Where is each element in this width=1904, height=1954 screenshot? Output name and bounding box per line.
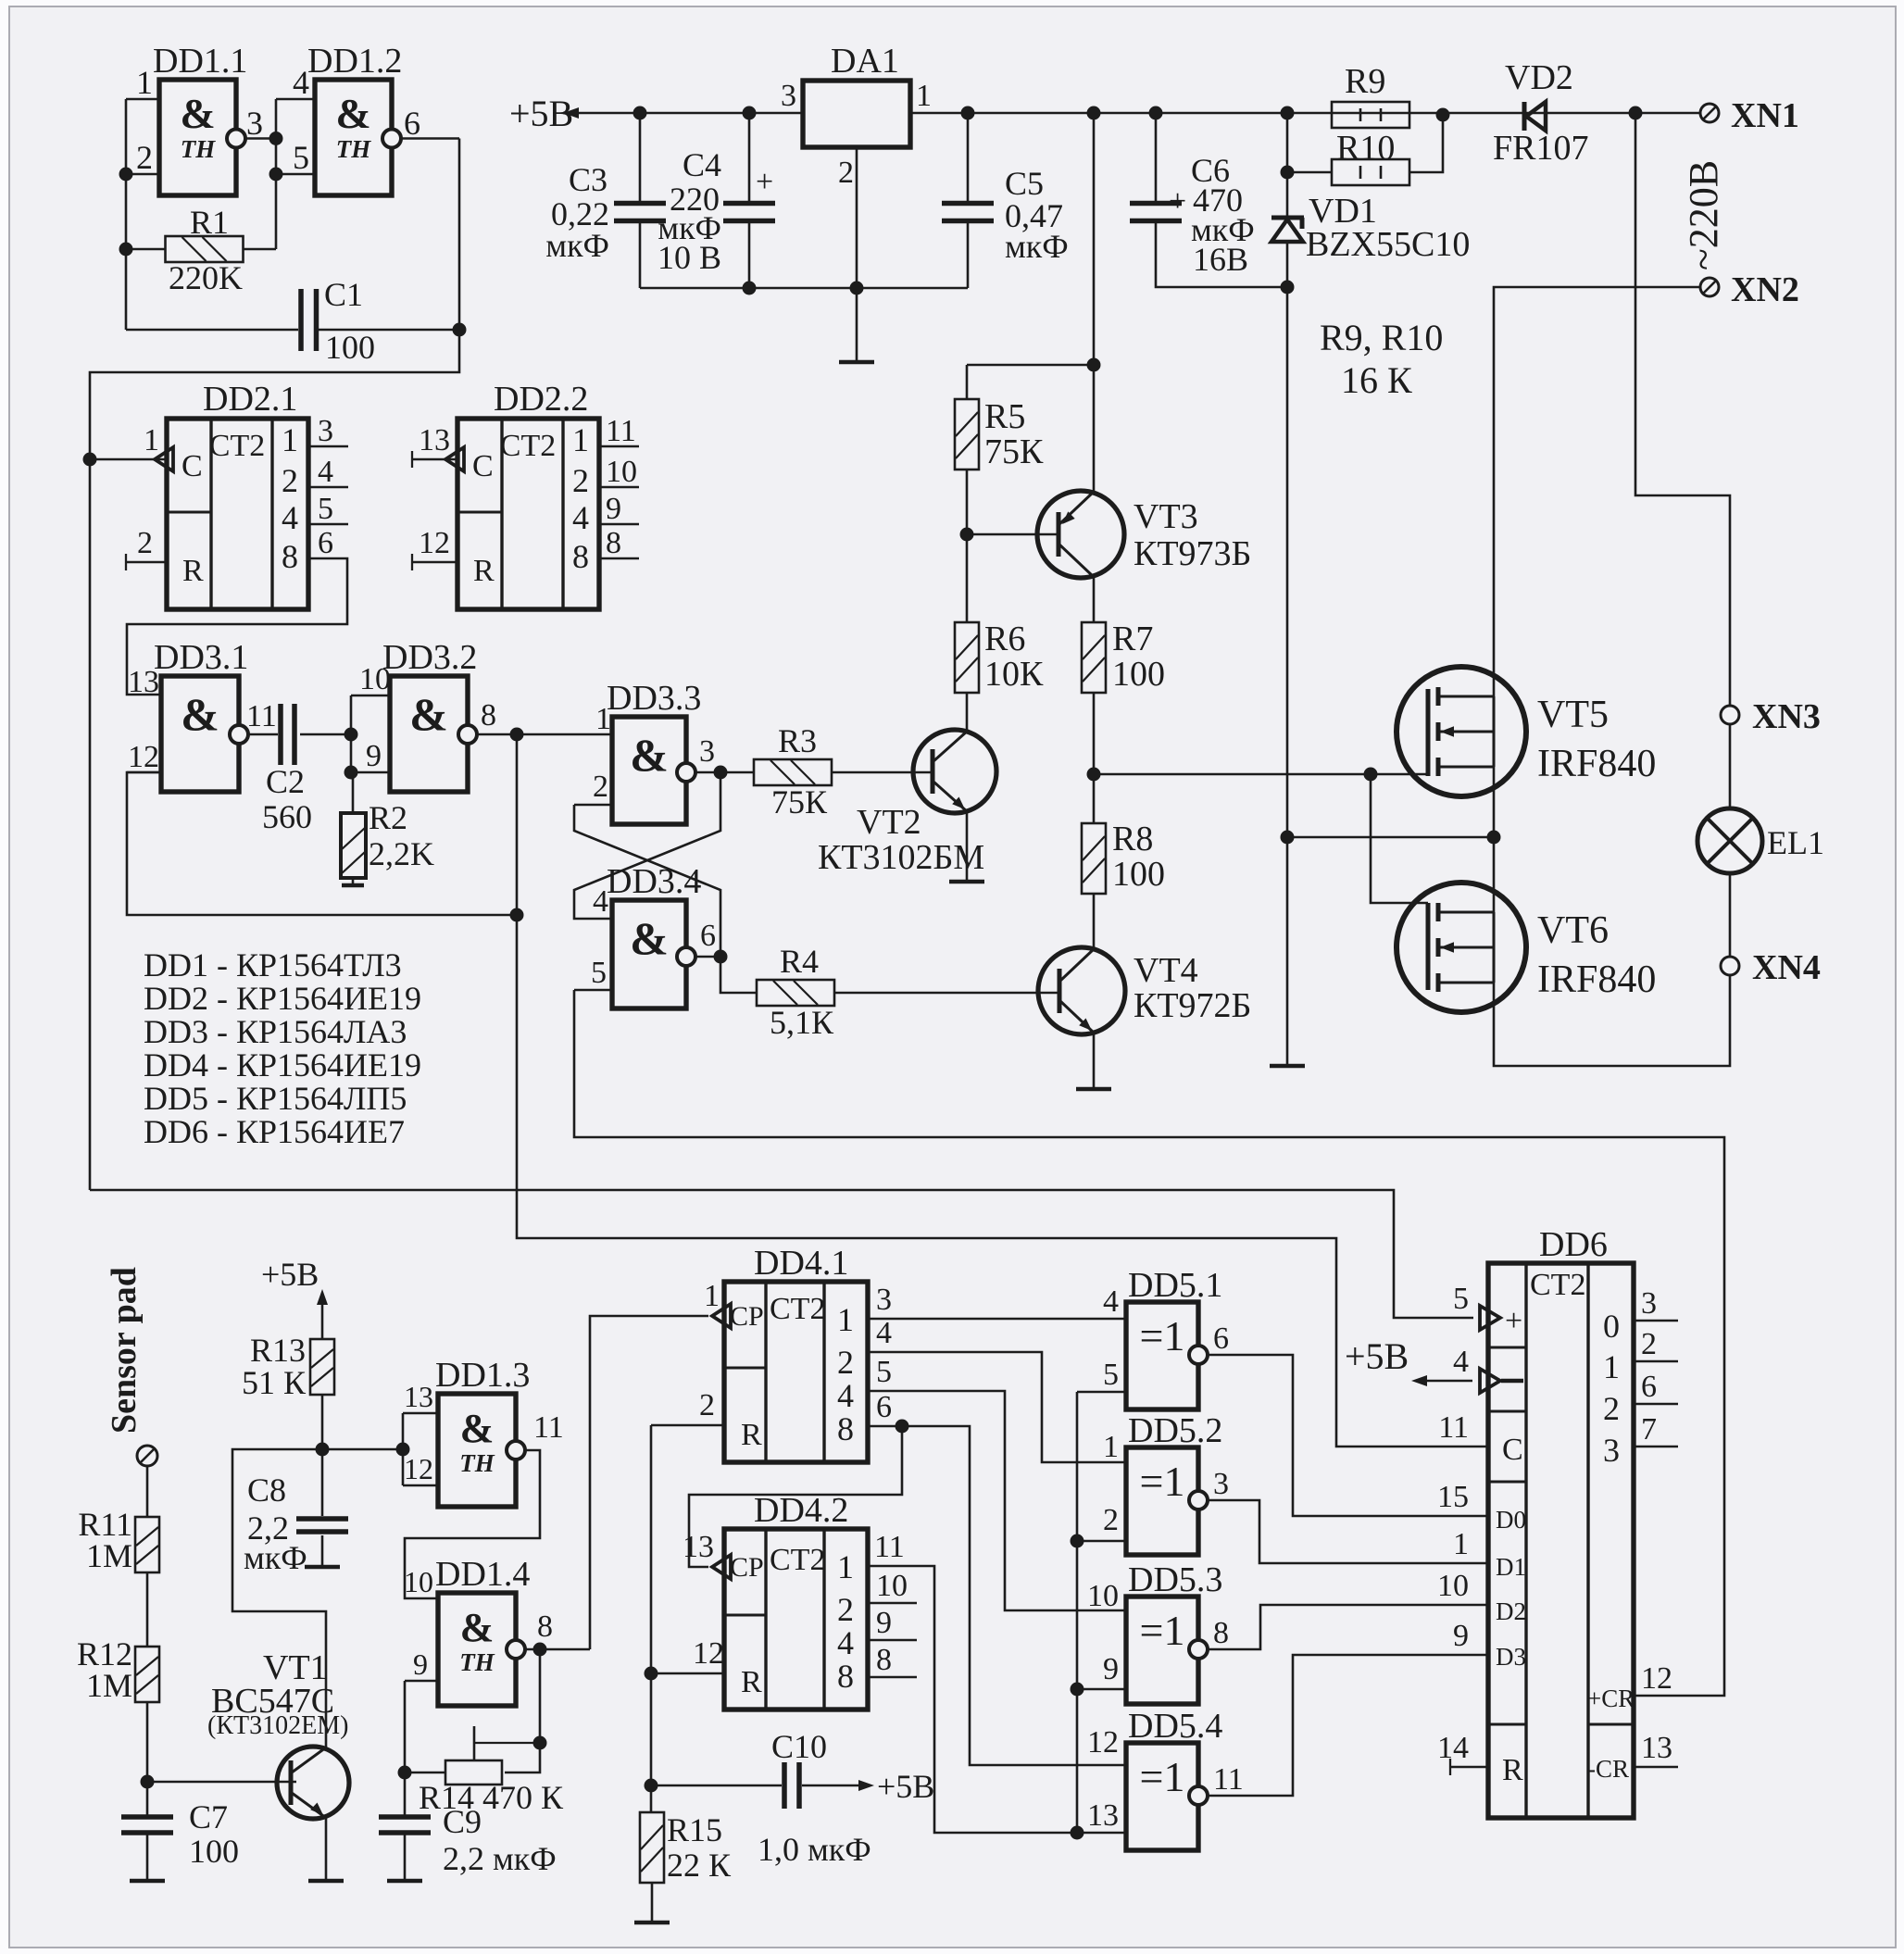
svg-text:КТ973Б: КТ973Б: [1134, 534, 1251, 573]
svg-text:R1: R1: [190, 204, 229, 241]
capacitor C5 0.47uF: [961, 106, 975, 120]
R14 left wire: [405, 1772, 445, 1774]
svg-text:КТ972Б: КТ972Б: [1134, 986, 1251, 1025]
svg-text:11: 11: [246, 699, 277, 733]
svg-text:3: 3: [876, 1283, 892, 1317]
svg-text:+5В: +5В: [877, 1768, 934, 1805]
svg-text:2: 2: [1103, 1503, 1119, 1537]
svg-text:C1: C1: [324, 276, 363, 313]
wire DD1.4 out down to R14: [557, 1648, 559, 1651]
wire DD1.4 out to DD4.1 clock: [524, 1648, 590, 1651]
junction rail/VD1 branch: [1281, 106, 1295, 120]
DD4.2 outputs 10,9,8 stubs: [868, 1602, 917, 1605]
XOR gate DD5.2: [1126, 1447, 1198, 1555]
voltage regulator DA1: [803, 81, 910, 147]
svg-text:C5: C5: [1005, 165, 1044, 202]
svg-text:DD3.3: DD3.3: [607, 679, 701, 718]
svg-text:R9: R9: [1345, 62, 1385, 101]
R10 right wire: [1409, 115, 1443, 172]
logic gate DD3.2 NAND: [390, 676, 468, 792]
svg-text:5: 5: [591, 956, 607, 990]
svg-text:8: 8: [572, 538, 589, 575]
svg-text:12: 12: [404, 1452, 433, 1485]
svg-text:2: 2: [837, 1591, 854, 1628]
junction pin2: [119, 168, 133, 182]
wire XN2 to VT5 drain: [1494, 287, 1700, 696]
svg-text:DD3 - КР1564ЛА3: DD3 - КР1564ЛА3: [144, 1013, 407, 1050]
DD4.1 output 5 wire to DD5.3: [868, 1391, 1126, 1610]
mid node wire: [1287, 836, 1494, 839]
svg-text:12: 12: [1087, 1725, 1119, 1760]
wire R12 down: [146, 1702, 149, 1815]
svg-text:8: 8: [1213, 1616, 1229, 1650]
svg-text:~220В: ~220В: [1681, 160, 1726, 270]
logic gate DD1.3 (Schmitt NAND): [438, 1394, 516, 1507]
DD5.3 output bubble 8: [1189, 1640, 1208, 1659]
pin 12 R DD2.2 (stub): [412, 561, 457, 564]
svg-text:1: 1: [837, 1301, 854, 1338]
wire oscillator line to DD6 + input: [90, 1190, 1473, 1318]
svg-text:+5В: +5В: [1345, 1335, 1409, 1377]
svg-text:4: 4: [876, 1316, 892, 1350]
svg-text:2: 2: [838, 156, 854, 190]
svg-text:R4: R4: [780, 943, 819, 980]
junction DD3.2 out: [510, 728, 524, 742]
svg-text:DD1.4: DD1.4: [435, 1555, 530, 1594]
svg-text:220K: 220K: [169, 259, 243, 296]
vertical line x1390 (VD1 branch): [1286, 113, 1289, 216]
wire R3 to VT2 base: [832, 771, 933, 774]
junction out3: [269, 132, 283, 145]
logic gate DD1.4 (Schmitt NAND): [438, 1593, 516, 1706]
svg-text:5: 5: [318, 492, 333, 526]
svg-text:6: 6: [700, 919, 716, 953]
wire to VT1 base: [147, 1781, 296, 1784]
svg-text:мкФ: мкФ: [545, 227, 609, 264]
svg-text:ТН: ТН: [459, 1449, 495, 1477]
svg-text:-CR: -CR: [1587, 1755, 1629, 1783]
svg-text:R5: R5: [984, 397, 1025, 436]
svg-text:D1: D1: [1496, 1553, 1526, 1581]
VT4 emitter ground: [1093, 1033, 1096, 1089]
svg-text:VT4: VT4: [1134, 951, 1198, 990]
svg-text:13: 13: [1087, 1798, 1119, 1833]
wire junction to DD1.3 inputs: [322, 1448, 403, 1451]
svg-text:Sensor pad: Sensor pad: [105, 1267, 144, 1434]
svg-text:&: &: [409, 688, 448, 740]
pin 5 DD3.4 wire to DD6 +CR: [574, 989, 612, 992]
svg-text:22 К: 22 К: [667, 1847, 732, 1884]
clock triangle DD4.2 pin 13: [712, 1555, 731, 1579]
svg-text:16В: 16В: [1193, 241, 1248, 278]
output bubble pin 6 DD1.2: [382, 130, 401, 148]
resistor R9 16K: [1332, 102, 1409, 128]
svg-text:R9, R10: R9, R10: [1320, 317, 1443, 358]
capacitor C3 0.22uF: [633, 106, 647, 120]
DD6 outputs 3,2,6,7: [1634, 1320, 1678, 1322]
svg-text:6: 6: [318, 526, 333, 560]
svg-text:ТН: ТН: [181, 135, 216, 163]
svg-text:11: 11: [874, 1530, 905, 1564]
svg-text:6: 6: [1213, 1321, 1229, 1356]
capacitor C9 2.2uF: [379, 1814, 431, 1820]
svg-text:R: R: [741, 1665, 762, 1699]
svg-text:1M: 1M: [86, 1667, 132, 1704]
svg-text:R2: R2: [369, 799, 407, 836]
wire DD2.2 pin 13 (stub): [412, 458, 458, 461]
svg-text:2: 2: [282, 462, 298, 499]
svg-text:DD5.3: DD5.3: [1128, 1560, 1222, 1599]
svg-text:R: R: [741, 1418, 762, 1452]
wire pin9 riser: [404, 1681, 407, 1815]
svg-text:&: &: [460, 1605, 495, 1650]
DD5.4 output bubble 11: [1189, 1786, 1208, 1805]
junction VT3 base: [960, 528, 974, 542]
junction C6/VD1: [1281, 281, 1295, 294]
svg-text:4: 4: [318, 455, 333, 489]
svg-text:10: 10: [606, 455, 637, 489]
DD5.1 output to DD6 D0: [1207, 1355, 1488, 1516]
cross wire DD3.3 pin2 to out6: [574, 805, 720, 957]
terminal XN2: [1700, 278, 1719, 296]
svg-text:DD5.1: DD5.1: [1128, 1266, 1222, 1305]
svg-text:DD2 - КР1564ИЕ19: DD2 - КР1564ИЕ19: [144, 980, 421, 1017]
capacitor C6 470uF 16V: [1149, 106, 1163, 120]
DD5.1 output bubble 6: [1189, 1346, 1208, 1364]
svg-text:C8: C8: [247, 1472, 286, 1509]
svg-text:2,2 мкФ: 2,2 мкФ: [443, 1840, 557, 1877]
svg-text:+: +: [1505, 1304, 1522, 1338]
resistor R5 75K: [966, 365, 969, 399]
rail right of DA1: [910, 112, 1701, 115]
svg-text:8: 8: [282, 538, 298, 575]
svg-text:4: 4: [282, 499, 298, 536]
counter DD6 CT2 (up/down): [1488, 1263, 1634, 1818]
counter DD4.1 CT2: [724, 1282, 868, 1462]
pin 9 DD1.4: [405, 1680, 438, 1683]
wire DD3.1 pin12 feedback: [127, 772, 517, 915]
junction pin5: [269, 168, 283, 182]
svg-text:100: 100: [1112, 655, 1165, 694]
svg-text:14: 14: [1437, 1731, 1469, 1765]
svg-text:C: C: [472, 449, 494, 483]
main +5V rail: [640, 112, 803, 115]
clock triangle DD4.1 pin 1: [712, 1304, 731, 1328]
VT1 emitter ground: [325, 1817, 328, 1881]
svg-text:DD5 - КР1564ЛП5: DD5 - КР1564ЛП5: [144, 1080, 407, 1117]
svg-text:IRF840: IRF840: [1537, 958, 1656, 1001]
wire lamp to XN4: [1729, 873, 1732, 957]
svg-text:R6: R6: [984, 620, 1025, 658]
svg-text:R7: R7: [1112, 620, 1153, 658]
svg-text:16 К: 16 К: [1341, 359, 1412, 401]
svg-text:10: 10: [1437, 1569, 1469, 1603]
capacitor C8 2.2uF: [321, 1449, 324, 1516]
junction C2 out: [344, 728, 358, 742]
svg-text:1: 1: [1103, 1430, 1119, 1464]
svg-text:2,2K: 2,2K: [369, 835, 434, 872]
svg-text:XN1: XN1: [1731, 96, 1799, 135]
clock triangle DD2.1 pin 1: [155, 447, 173, 471]
svg-text:6: 6: [404, 105, 420, 142]
output bubble pin 6 DD3.4: [677, 947, 695, 966]
VT5 source to mid node: [1493, 767, 1496, 837]
svg-text:13: 13: [404, 1380, 433, 1413]
svg-text:C9: C9: [443, 1803, 482, 1840]
svg-text:DD3.4: DD3.4: [607, 862, 701, 901]
svg-text:XN3: XN3: [1752, 697, 1821, 736]
DD2.2 output pins 11,10,9,8 (stubs): [599, 445, 639, 448]
svg-text:9: 9: [1103, 1652, 1119, 1686]
resistor R6 10K: [955, 622, 979, 693]
VT6 drain to mid node: [1493, 837, 1496, 912]
svg-text:1: 1: [572, 421, 589, 458]
svg-text:0: 0: [1603, 1308, 1620, 1345]
capacitor C2 560: [278, 704, 283, 765]
svg-text:1: 1: [144, 423, 159, 457]
pin 12 R DD4.2: [651, 1672, 724, 1675]
wire riser x379: [350, 695, 353, 772]
output bubble pin 8 DD3.2: [458, 725, 477, 744]
svg-text:2: 2: [699, 1388, 715, 1422]
pin 1 DD1.1: [126, 98, 159, 101]
ground rail under caps: [640, 287, 968, 290]
wire DD1.3 out to DD1.4 input 10: [405, 1450, 540, 1598]
svg-text:D0: D0: [1496, 1506, 1526, 1534]
output bubble pin 11 DD3.1: [230, 725, 248, 744]
pin 12 DD3.1: [127, 771, 161, 774]
svg-text:75К: 75К: [984, 432, 1044, 471]
svg-text:9: 9: [413, 1647, 428, 1681]
svg-text:R: R: [473, 554, 495, 588]
svg-text:DD4 - КР1564ИЕ19: DD4 - КР1564ИЕ19: [144, 1046, 421, 1083]
svg-text:5: 5: [293, 139, 309, 176]
svg-text:11: 11: [606, 414, 636, 448]
svg-text:2: 2: [1641, 1327, 1657, 1361]
svg-text:2: 2: [572, 462, 589, 499]
svg-text:C: C: [1502, 1433, 1523, 1467]
svg-text:1: 1: [916, 79, 932, 113]
XOR gate DD5.3: [1126, 1597, 1198, 1704]
svg-text:10 В: 10 В: [658, 239, 721, 276]
DD5.3 output to DD6 D2: [1207, 1605, 1488, 1649]
wire riser x298 pins4-5: [275, 99, 278, 249]
svg-text:(КТ3102ЕМ): (КТ3102ЕМ): [207, 1711, 348, 1740]
svg-text:=1: =1: [1140, 1312, 1185, 1359]
svg-text:C2: C2: [266, 763, 305, 800]
svg-text:CT2: CT2: [1530, 1268, 1585, 1302]
DD2.1 output pins 3,4,5: [308, 445, 348, 448]
svg-text:+CR: +CR: [1587, 1685, 1635, 1712]
svg-text:12: 12: [419, 526, 450, 560]
ground R2: [352, 878, 355, 885]
resistor R8 100: [1093, 774, 1096, 823]
svg-text:12: 12: [128, 740, 159, 774]
wire XN4 down to VT6 source: [1494, 975, 1730, 1066]
wire sensor to R11: [146, 1466, 149, 1517]
svg-text:8: 8: [606, 526, 621, 560]
svg-text:CP: CP: [730, 1552, 764, 1583]
svg-text:3: 3: [246, 105, 263, 142]
svg-text:R14 470 К: R14 470 К: [419, 1779, 564, 1816]
diode VD2 FR107: [1522, 102, 1527, 131]
svg-text:15: 15: [1437, 1480, 1469, 1514]
svg-text:1: 1: [1603, 1348, 1620, 1385]
svg-text:4: 4: [572, 499, 589, 536]
pin 4 DD1.2: [276, 98, 315, 101]
svg-text:9: 9: [876, 1606, 892, 1640]
svg-text:51 К: 51 К: [242, 1364, 307, 1401]
transistor VT4 KT972B (NPN): [1038, 947, 1125, 1034]
svg-text:2: 2: [1603, 1390, 1620, 1427]
wire C1 down-left loop to DD2.1 clock: [90, 330, 459, 1190]
wire R4 to VT4 base: [834, 992, 1060, 995]
svg-text:13: 13: [128, 665, 159, 699]
svg-text:C3: C3: [569, 161, 608, 198]
svg-text:4: 4: [1103, 1284, 1119, 1319]
svg-text:13: 13: [419, 423, 450, 457]
svg-text:DD3.1: DD3.1: [154, 638, 248, 677]
VT2 collector wire: [966, 730, 969, 733]
svg-text:VT5: VT5: [1537, 694, 1609, 736]
svg-text:4: 4: [293, 64, 309, 101]
svg-text:DD2.1: DD2.1: [203, 380, 297, 419]
clock triangle DD2.2 pin 13: [445, 447, 464, 471]
svg-text:R3: R3: [778, 722, 817, 759]
junction XN1 branch: [1629, 106, 1643, 120]
svg-text:2: 2: [137, 526, 153, 560]
svg-text:560: 560: [262, 798, 312, 835]
resistor R4 5.1K: [720, 957, 757, 993]
svg-text:DA1: DA1: [831, 42, 899, 81]
svg-text:VT6: VT6: [1537, 909, 1609, 952]
logic gate DD3.1 NAND: [161, 676, 239, 792]
svg-text:11: 11: [1438, 1410, 1469, 1445]
wire R11-R12: [146, 1572, 149, 1647]
svg-text:DD4.1: DD4.1: [754, 1244, 848, 1283]
svg-text:DD6: DD6: [1539, 1225, 1608, 1264]
svg-text:6: 6: [876, 1390, 892, 1424]
svg-text:1: 1: [1453, 1527, 1469, 1561]
resistor R13 51K: [321, 1293, 324, 1339]
svg-text:&: &: [180, 90, 215, 137]
svg-text:мкФ: мкФ: [244, 1539, 307, 1576]
svg-text:12: 12: [1641, 1661, 1672, 1696]
svg-text:FR107: FR107: [1493, 129, 1588, 168]
DD5.4 output to DD6 D3: [1207, 1655, 1488, 1796]
svg-text:3: 3: [781, 79, 796, 113]
junction pin9: [344, 766, 358, 780]
wire riser x558 to DD6 C line: [517, 734, 1488, 1447]
resistor R7 100: [1082, 622, 1106, 693]
svg-text:XN4: XN4: [1752, 948, 1821, 987]
svg-text:100: 100: [1112, 855, 1165, 894]
svg-text:&: &: [630, 912, 669, 964]
svg-text:12: 12: [693, 1636, 724, 1671]
svg-text:DD3.2: DD3.2: [382, 638, 477, 677]
svg-text:8: 8: [837, 1658, 854, 1695]
wire DD1.1 input riser x136: [125, 99, 128, 330]
XOR gate DD5.1: [1126, 1302, 1198, 1409]
svg-text:5,1К: 5,1К: [770, 1004, 834, 1041]
svg-text:9: 9: [1453, 1619, 1469, 1653]
svg-text:R8: R8: [1112, 820, 1153, 858]
svg-text:XN2: XN2: [1731, 270, 1799, 309]
svg-text:VD2: VD2: [1505, 58, 1573, 97]
logic gate DD1.2 (Schmitt NAND): [315, 80, 392, 195]
svg-text:=1: =1: [1140, 1607, 1185, 1654]
svg-text:CP: CP: [730, 1301, 764, 1332]
svg-text:2: 2: [593, 770, 608, 804]
svg-text:D2: D2: [1496, 1597, 1526, 1625]
svg-text:11: 11: [1213, 1762, 1244, 1797]
svg-text:DD1.1: DD1.1: [153, 42, 247, 81]
counter DD2.1 CT2: [167, 419, 308, 609]
DD6 - input pin 4 to +5V: [1480, 1369, 1500, 1393]
svg-text:&: &: [630, 729, 669, 781]
svg-text:13: 13: [683, 1530, 714, 1564]
DD4.1 output 4 wire to DD5.2: [868, 1352, 1126, 1462]
resistor R3 75K: [754, 759, 832, 785]
svg-text:C4: C4: [683, 146, 721, 183]
svg-text:CT2: CT2: [209, 429, 265, 463]
svg-text:9: 9: [606, 492, 621, 526]
counter DD2.2 CT2: [457, 419, 599, 609]
svg-text:10К: 10К: [984, 655, 1044, 694]
lamp EL1: [1697, 808, 1762, 873]
resistor R12 1M: [135, 1647, 159, 1702]
svg-text:+: +: [1169, 184, 1186, 219]
capacitor C4 220uF 10V: [743, 106, 757, 120]
capacitor C1 100: [126, 329, 298, 332]
svg-text:5: 5: [1453, 1282, 1469, 1316]
svg-text:DD1.3: DD1.3: [435, 1356, 530, 1395]
ground R15: [651, 1883, 654, 1923]
svg-text:DD5.4: DD5.4: [1128, 1707, 1222, 1746]
resistor R2 2.2K: [341, 813, 366, 878]
svg-text:ТН: ТН: [336, 135, 371, 163]
resistor R15 22K: [640, 1812, 664, 1883]
terminal XN4: [1721, 957, 1739, 975]
terminal XN1: [1700, 104, 1719, 122]
svg-text:3: 3: [1213, 1467, 1229, 1501]
svg-text:13: 13: [1641, 1731, 1672, 1765]
wire R bus x703: [650, 1425, 653, 1812]
resistor R1 220K: [166, 236, 244, 262]
DD4.1 output 3 wire to DD5.1: [868, 1318, 1126, 1321]
DD6 internal cell dividers: [1488, 1347, 1526, 1349]
transistor VT1 BC547C (NPN): [277, 1747, 349, 1819]
svg-text:C10: C10: [771, 1728, 827, 1765]
pin 2 R DD4.1: [651, 1424, 724, 1427]
wire R1 left: [126, 248, 165, 251]
DD6 pin 14 R stub: [1450, 1766, 1488, 1769]
svg-text:DD4.2: DD4.2: [754, 1491, 848, 1530]
cross wire out3 to DD3.4 pin4: [574, 772, 720, 919]
wire DD4.1 out6 to DD4.2 clock: [689, 1426, 902, 1567]
svg-text:10: 10: [359, 662, 391, 696]
svg-text:1: 1: [282, 421, 298, 458]
svg-text:+5В: +5В: [261, 1256, 319, 1293]
svg-text:R15: R15: [667, 1811, 722, 1848]
svg-text:2: 2: [136, 139, 153, 176]
svg-text:+: +: [756, 165, 773, 199]
svg-text:100: 100: [189, 1833, 239, 1870]
terminal XN3: [1721, 706, 1739, 724]
svg-text:10: 10: [404, 1565, 433, 1598]
svg-text:3: 3: [699, 734, 715, 769]
XOR gate DD5.4: [1126, 1743, 1198, 1850]
